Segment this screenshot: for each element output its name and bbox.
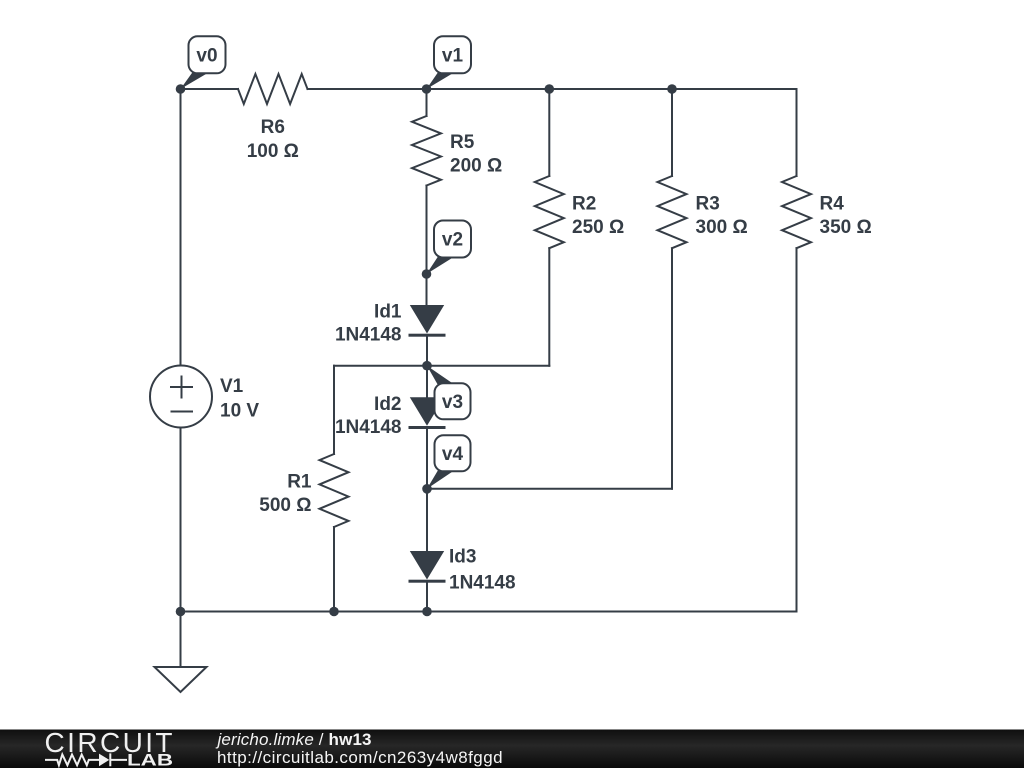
wire R5 bottom to v2 node [426, 186, 428, 275]
svg-text:v2: v2 [442, 230, 463, 251]
resistor R3 [658, 176, 687, 248]
junction node dot v3 [422, 361, 432, 371]
svg-text:300 Ω: 300 Ω [696, 217, 748, 238]
svg-text:100 Ω: 100 Ω [247, 141, 299, 162]
node v1 pointer [427, 72, 455, 89]
wire R5 branch top lead [426, 89, 428, 116]
wire v2 node to Id1 [426, 274, 428, 305]
svg-text:v4: v4 [442, 444, 464, 465]
wire ground stem [180, 612, 182, 668]
svg-text:R6: R6 [261, 117, 285, 138]
svg-text:1N4148: 1N4148 [335, 325, 402, 346]
wire v4 node to Id3 [426, 489, 428, 551]
junction dot top rail R3 [667, 84, 677, 94]
svg-text:R5: R5 [450, 132, 475, 153]
svg-text:V1: V1 [220, 376, 244, 397]
svg-text:jericho.limke / hw13: jericho.limke / hw13 [216, 730, 372, 749]
node v1 callout box [434, 36, 471, 73]
svg-text:200 Ω: 200 Ω [450, 155, 502, 176]
wire R1 top lead [333, 366, 335, 454]
wire Id2 bar to v4 node [426, 427, 428, 489]
junction dot bottom rail ground [176, 607, 186, 617]
wire R3 branch vertical top [671, 89, 673, 176]
resistor R6 [238, 74, 308, 104]
ground symbol [155, 667, 207, 692]
svg-text:v0: v0 [196, 46, 217, 67]
svg-text:350 Ω: 350 Ω [820, 217, 872, 238]
junction node dot v2 [422, 269, 432, 279]
resistor R1 [320, 454, 349, 527]
node v0 callout box [189, 36, 226, 73]
junction dot top rail R2 [545, 84, 555, 94]
wire middle horizontal R1 top to R2 bottom [334, 365, 549, 367]
svg-text:250 Ω: 250 Ω [572, 217, 624, 238]
svg-text:1N4148: 1N4148 [449, 572, 516, 593]
wire R4 branch vertical top [796, 89, 798, 176]
junction node dot v1 [422, 84, 432, 94]
diode Id1 [410, 305, 444, 334]
wire R2 branch vertical top [548, 89, 550, 176]
CircuitLab logo resistor-diode glyph [45, 753, 127, 766]
svg-text:Id2: Id2 [374, 394, 401, 415]
junction dot bottom rail Id3 [422, 607, 432, 617]
wire Id1 bar to junction v3 [426, 335, 428, 366]
wire junction v3 to Id2 [426, 366, 428, 398]
CircuitLab logo diode triangle [99, 754, 109, 767]
node v2 pointer [427, 257, 455, 275]
resistor R5 [412, 116, 441, 186]
svg-text:R2: R2 [572, 193, 596, 214]
junction node dot v4 [422, 484, 432, 494]
wire top rail from R6 to R4 branch [308, 88, 797, 90]
diode Id2 [410, 397, 444, 426]
resistor R2 [535, 176, 564, 248]
svg-text:R3: R3 [696, 193, 720, 214]
wire junction v4 to R3 bottom [427, 488, 672, 490]
wire Id3 bar to bottom rail [426, 581, 428, 612]
wire top rail from v0 to R6 [181, 88, 239, 90]
junction node dot v0 [176, 84, 186, 94]
diode Id3 [410, 551, 444, 580]
svg-text:v1: v1 [442, 46, 464, 67]
voltage source V1 circle [150, 366, 212, 428]
resistor R4 [782, 176, 811, 248]
svg-text:Id1: Id1 [374, 302, 402, 323]
V1 minus sign [172, 411, 193, 413]
node v2 callout box [434, 221, 471, 258]
svg-text:v3: v3 [442, 392, 463, 413]
node v3 callout box [435, 383, 471, 419]
svg-text:LAB: LAB [127, 750, 173, 768]
svg-text:Id3: Id3 [449, 547, 476, 568]
svg-text:1N4148: 1N4148 [335, 417, 402, 438]
svg-text:R1: R1 [287, 472, 312, 493]
footer black bar [0, 730, 1024, 768]
svg-text:R4: R4 [820, 193, 845, 214]
wire bottom rail [181, 611, 797, 613]
wire left rail v0 down to V1 top [180, 89, 182, 366]
svg-text:10 V: 10 V [220, 401, 259, 422]
wire R4 branch vertical bottom [796, 248, 798, 611]
node v4 pointer [427, 470, 455, 489]
node v4 callout box [435, 435, 471, 471]
wire R3 branch vertical bottom [671, 248, 673, 489]
wire R1 bottom lead [333, 527, 335, 612]
wire V1 bottom down to ground rail [180, 428, 182, 612]
svg-text:500 Ω: 500 Ω [259, 495, 311, 516]
V1 plus sign [171, 377, 192, 398]
node v3 pointer [427, 366, 454, 385]
node v0 pointer [181, 72, 210, 89]
junction dot bottom rail R1 [329, 607, 339, 617]
wire R2 branch vertical bottom [548, 248, 550, 366]
svg-text:http://circuitlab.com/cn263y4w: http://circuitlab.com/cn263y4w8fggd [217, 748, 503, 767]
